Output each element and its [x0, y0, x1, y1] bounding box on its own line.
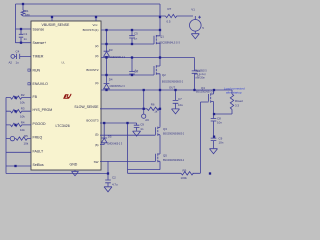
svg-text:UL: UL: [61, 61, 65, 65]
svg-text:BSC059N04LS G-3: BSC059N04LS G-3: [160, 42, 181, 44]
svg-text:C7: C7: [178, 97, 182, 101]
svg-text:CMDSH05-2 3: CMDSH05-2 3: [110, 86, 126, 88]
svg-text:10u: 10u: [178, 103, 183, 107]
svg-text:D4: D4: [109, 78, 113, 82]
svg-text:PGOOD: PGOOD: [33, 122, 47, 126]
svg-text:Q4: Q4: [201, 86, 205, 90]
svg-text:Q5: Q5: [163, 154, 167, 158]
svg-text:C4: C4: [197, 69, 201, 73]
svg-text:R4: R4: [21, 120, 25, 124]
svg-text:R3: R3: [21, 107, 25, 111]
svg-text:Ssense: Ssense: [33, 27, 45, 31]
svg-text:1u: 1u: [197, 74, 201, 78]
svg-text:VBUS0R_SENSE: VBUS0R_SENSE: [42, 23, 70, 27]
svg-text:BSC0902NSI0603-2: BSC0902NSI0603-2: [162, 81, 184, 83]
svg-text:1n: 1n: [135, 69, 139, 73]
svg-text:R7: R7: [168, 7, 172, 11]
svg-text:C5: C5: [134, 32, 138, 36]
svg-text:HYS_PRGM: HYS_PRGM: [33, 108, 53, 112]
svg-text:CMDSH05-2 3: CMDSH05-2 3: [107, 144, 123, 146]
svg-text:Ssense+: Ssense+: [33, 41, 47, 45]
svg-text:1n: 1n: [140, 127, 144, 131]
svg-text:180: 180: [25, 13, 30, 17]
svg-text:BOOST2: BOOST2: [86, 68, 99, 72]
svg-text:Q3: Q3: [163, 127, 167, 131]
svg-text:C4: C4: [16, 50, 20, 54]
svg-text:R5: R5: [24, 134, 28, 138]
svg-text:BOOST1(1): BOOST1(1): [83, 28, 99, 32]
svg-text:1n: 1n: [134, 37, 138, 41]
svg-text:1u: 1u: [16, 61, 20, 65]
svg-text:1n: 1n: [24, 37, 28, 41]
svg-text:0.5: 0.5: [167, 20, 171, 24]
svg-text:FB: FB: [33, 95, 38, 99]
svg-text:FREQ: FREQ: [33, 136, 43, 140]
svg-text:TIMER: TIMER: [33, 55, 44, 59]
svg-text:10n: 10n: [217, 121, 222, 125]
svg-text:A6: A6: [145, 118, 149, 122]
svg-text:D5: D5: [108, 135, 112, 139]
svg-text:RUN: RUN: [33, 68, 41, 72]
svg-text:10n: 10n: [219, 141, 224, 145]
svg-text:Q2: Q2: [162, 73, 166, 77]
svg-text:C1: C1: [24, 32, 28, 36]
svg-text:OUT: OUT: [169, 86, 175, 90]
svg-text:Vcc: Vcc: [93, 23, 99, 27]
svg-text:FAULT: FAULT: [33, 149, 44, 153]
svg-text:LTC3426: LTC3426: [56, 124, 70, 128]
svg-text:GND: GND: [70, 162, 78, 166]
svg-text:CMDSH05-2 3: CMDSH05-2 3: [110, 57, 126, 59]
svg-text:10k: 10k: [20, 128, 25, 132]
svg-text:BSC0902NSI G-2: BSC0902NSI G-2: [196, 92, 215, 94]
svg-text:100k: 100k: [181, 176, 188, 180]
svg-text:BSC0902NSI0603-2: BSC0902NSI0603-2: [163, 134, 185, 136]
svg-text:C2: C2: [112, 176, 116, 180]
svg-text:A2: A2: [9, 61, 13, 65]
svg-text:SelBus: SelBus: [33, 163, 44, 167]
svg-text:(3): (3): [95, 54, 99, 58]
svg-text:1k: 1k: [154, 110, 158, 114]
svg-text:C9: C9: [140, 122, 144, 126]
svg-text:(6): (6): [95, 143, 99, 147]
svg-text:4.7u: 4.7u: [112, 183, 118, 187]
svg-text:Rload: Rload: [235, 99, 243, 103]
svg-text:BSC0902NSI0603-2: BSC0902NSI0603-2: [163, 160, 185, 162]
svg-text:R2: R2: [21, 93, 25, 97]
svg-text:SLOW_SENSE: SLOW_SENSE: [74, 105, 99, 109]
svg-text:R6: R6: [151, 103, 155, 107]
svg-text:10k: 10k: [24, 142, 29, 146]
svg-text:10k: 10k: [20, 101, 25, 105]
svg-text:R9: R9: [183, 168, 187, 172]
svg-text:V1: V1: [191, 7, 195, 11]
svg-text:(2): (2): [95, 44, 99, 48]
svg-text:BOOST3: BOOST3: [86, 119, 99, 123]
svg-text:EN/UVLO: EN/UVLO: [33, 82, 49, 86]
svg-text:10k: 10k: [20, 114, 25, 118]
svg-text:(4): (4): [95, 81, 99, 85]
svg-text:3.3: 3.3: [235, 104, 239, 108]
svg-text:Q1: Q1: [160, 34, 164, 38]
svg-text:SW: SW: [94, 160, 99, 164]
svg-text:(5): (5): [95, 133, 99, 137]
svg-text:after startup: after startup: [226, 91, 242, 95]
svg-text:D3: D3: [109, 48, 113, 52]
